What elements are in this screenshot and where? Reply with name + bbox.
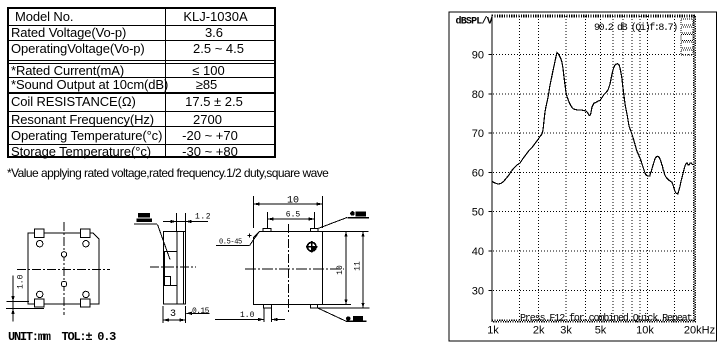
drawing 3 horizontal centerline [245, 268, 344, 270]
drawing 3 top-right pad symbol [318, 218, 347, 229]
drawing 3: front view body with chamfer [254, 232, 323, 305]
drawing 1 dim 1.0 arrows [11, 296, 14, 302]
svg-text:10: 10 [336, 265, 345, 275]
svg-text:3k: 3k [560, 325, 572, 337]
svg-text:50: 50 [472, 207, 484, 219]
svg-text:Press F12 for combined Quick R: Press F12 for combined Quick Repeat [520, 313, 692, 325]
svg-text:80: 80 [472, 89, 484, 101]
drawing 3 sound hole symbol [306, 241, 317, 252]
drawing 3 bottom pads [264, 305, 272, 309]
drawing 1 corner hole circles [37, 241, 90, 298]
drawing 3 bottom-right pad symbol [318, 308, 346, 321]
drawing 3 dim 6.5 [268, 212, 315, 228]
drawing 2 horizontal centerline [150, 266, 196, 268]
drawing 1 dim 1.0 extension lines [6, 276, 44, 322]
svg-text:5k: 5k [595, 325, 607, 337]
svg-text:1.2: 1.2 [195, 213, 211, 222]
chart plot right hatched border [693, 15, 695, 322]
svg-text:6.5: 6.5 [286, 211, 301, 220]
drawing 1 pad bottom-left [35, 299, 45, 307]
chart outer frame [449, 12, 717, 341]
svg-text:40: 40 [472, 246, 484, 258]
drawing 3 vertical centerline [288, 224, 290, 312]
svg-text:3: 3 [170, 309, 176, 320]
svg-text:70: 70 [472, 128, 484, 140]
svg-text:dBSPL/V: dBSPL/V [456, 16, 493, 28]
table row 5 [11, 77, 168, 92]
table row 2 [11, 25, 126, 40]
drawing 2 dim 0.15 [187, 312, 210, 314]
svg-text:1.0: 1.0 [240, 311, 255, 320]
svg-text:11: 11 [354, 261, 363, 271]
chart x-axis labels [487, 325, 715, 337]
table row 1 [15, 9, 73, 24]
drawing 2 inner step [165, 277, 171, 286]
svg-text:2k: 2k [533, 325, 545, 337]
svg-text:0.15: 0.15 [192, 307, 210, 316]
drawing 1: bottom view outline [28, 233, 99, 304]
drawing 2: side view body [164, 232, 186, 305]
chart plot bottom hatched border [492, 319, 696, 321]
y axis ticks [489, 55, 493, 291]
drawing 2 dim 3 [163, 306, 186, 323]
table row 6 [11, 94, 136, 109]
svg-text:90: 90 [472, 50, 484, 62]
drawing 1 pad bottom-right [81, 299, 91, 307]
table row 8 [11, 128, 162, 143]
unit note [8, 330, 115, 344]
svg-text:10k: 10k [636, 325, 654, 337]
drawing 3 dim 10 right [345, 232, 347, 305]
chart plot left axis [491, 15, 493, 323]
table row 4 [11, 63, 124, 78]
spec table [7, 7, 276, 158]
drawing 3 dim 10 top [254, 196, 323, 228]
table row lines [9, 25, 274, 26]
drawing 3 top pads [263, 229, 271, 232]
table row 3 [11, 41, 145, 56]
drawing 1 pad top-left [35, 229, 45, 238]
vertical dotted gridlines log frequency [519, 16, 674, 320]
drawing 2 case right wall [182, 232, 184, 305]
drawing 2 pad symbol black [138, 213, 150, 218]
svg-text:1.0: 1.0 [17, 274, 26, 289]
horizontal dotted gridlines 90..30 dB [493, 55, 694, 291]
drawing 2 dim 1.2 [163, 213, 208, 231]
svg-text:60: 60 [472, 167, 484, 179]
drawing 2 pad leader [158, 225, 171, 260]
drawing 1 vertical centerline [63, 222, 65, 315]
small dotted boxes top right [681, 19, 693, 55]
table row 9 [11, 144, 151, 159]
drawing 2 inner rect [165, 252, 178, 286]
drawing 3 dim 11 right [362, 232, 364, 309]
footnote [7, 166, 328, 180]
svg-text:10: 10 [287, 196, 299, 207]
drawing 3 dim 1.0 bottom [215, 309, 285, 323]
table column divider [165, 9, 166, 156]
svg-text:1k: 1k [487, 325, 499, 337]
chart plot top hatched border [492, 14, 696, 16]
drawing 1 horizontal centerline [17, 268, 110, 270]
drawing 2 inner vertical line [176, 232, 178, 305]
table row 7 [11, 112, 154, 127]
svg-text:90.2 dB (Qi)f:8.7): 90.2 dB (Qi)f:8.7) [594, 22, 677, 34]
svg-text:20kHz: 20kHz [684, 325, 715, 337]
drawing 1 pad top-right [81, 229, 91, 238]
chart y-axis labels [472, 50, 484, 298]
frequency response curve [492, 53, 694, 194]
drawing 1 center holes [61, 252, 66, 257]
drawing 3 right extension lines [315, 232, 370, 309]
svg-text:30: 30 [472, 285, 484, 297]
